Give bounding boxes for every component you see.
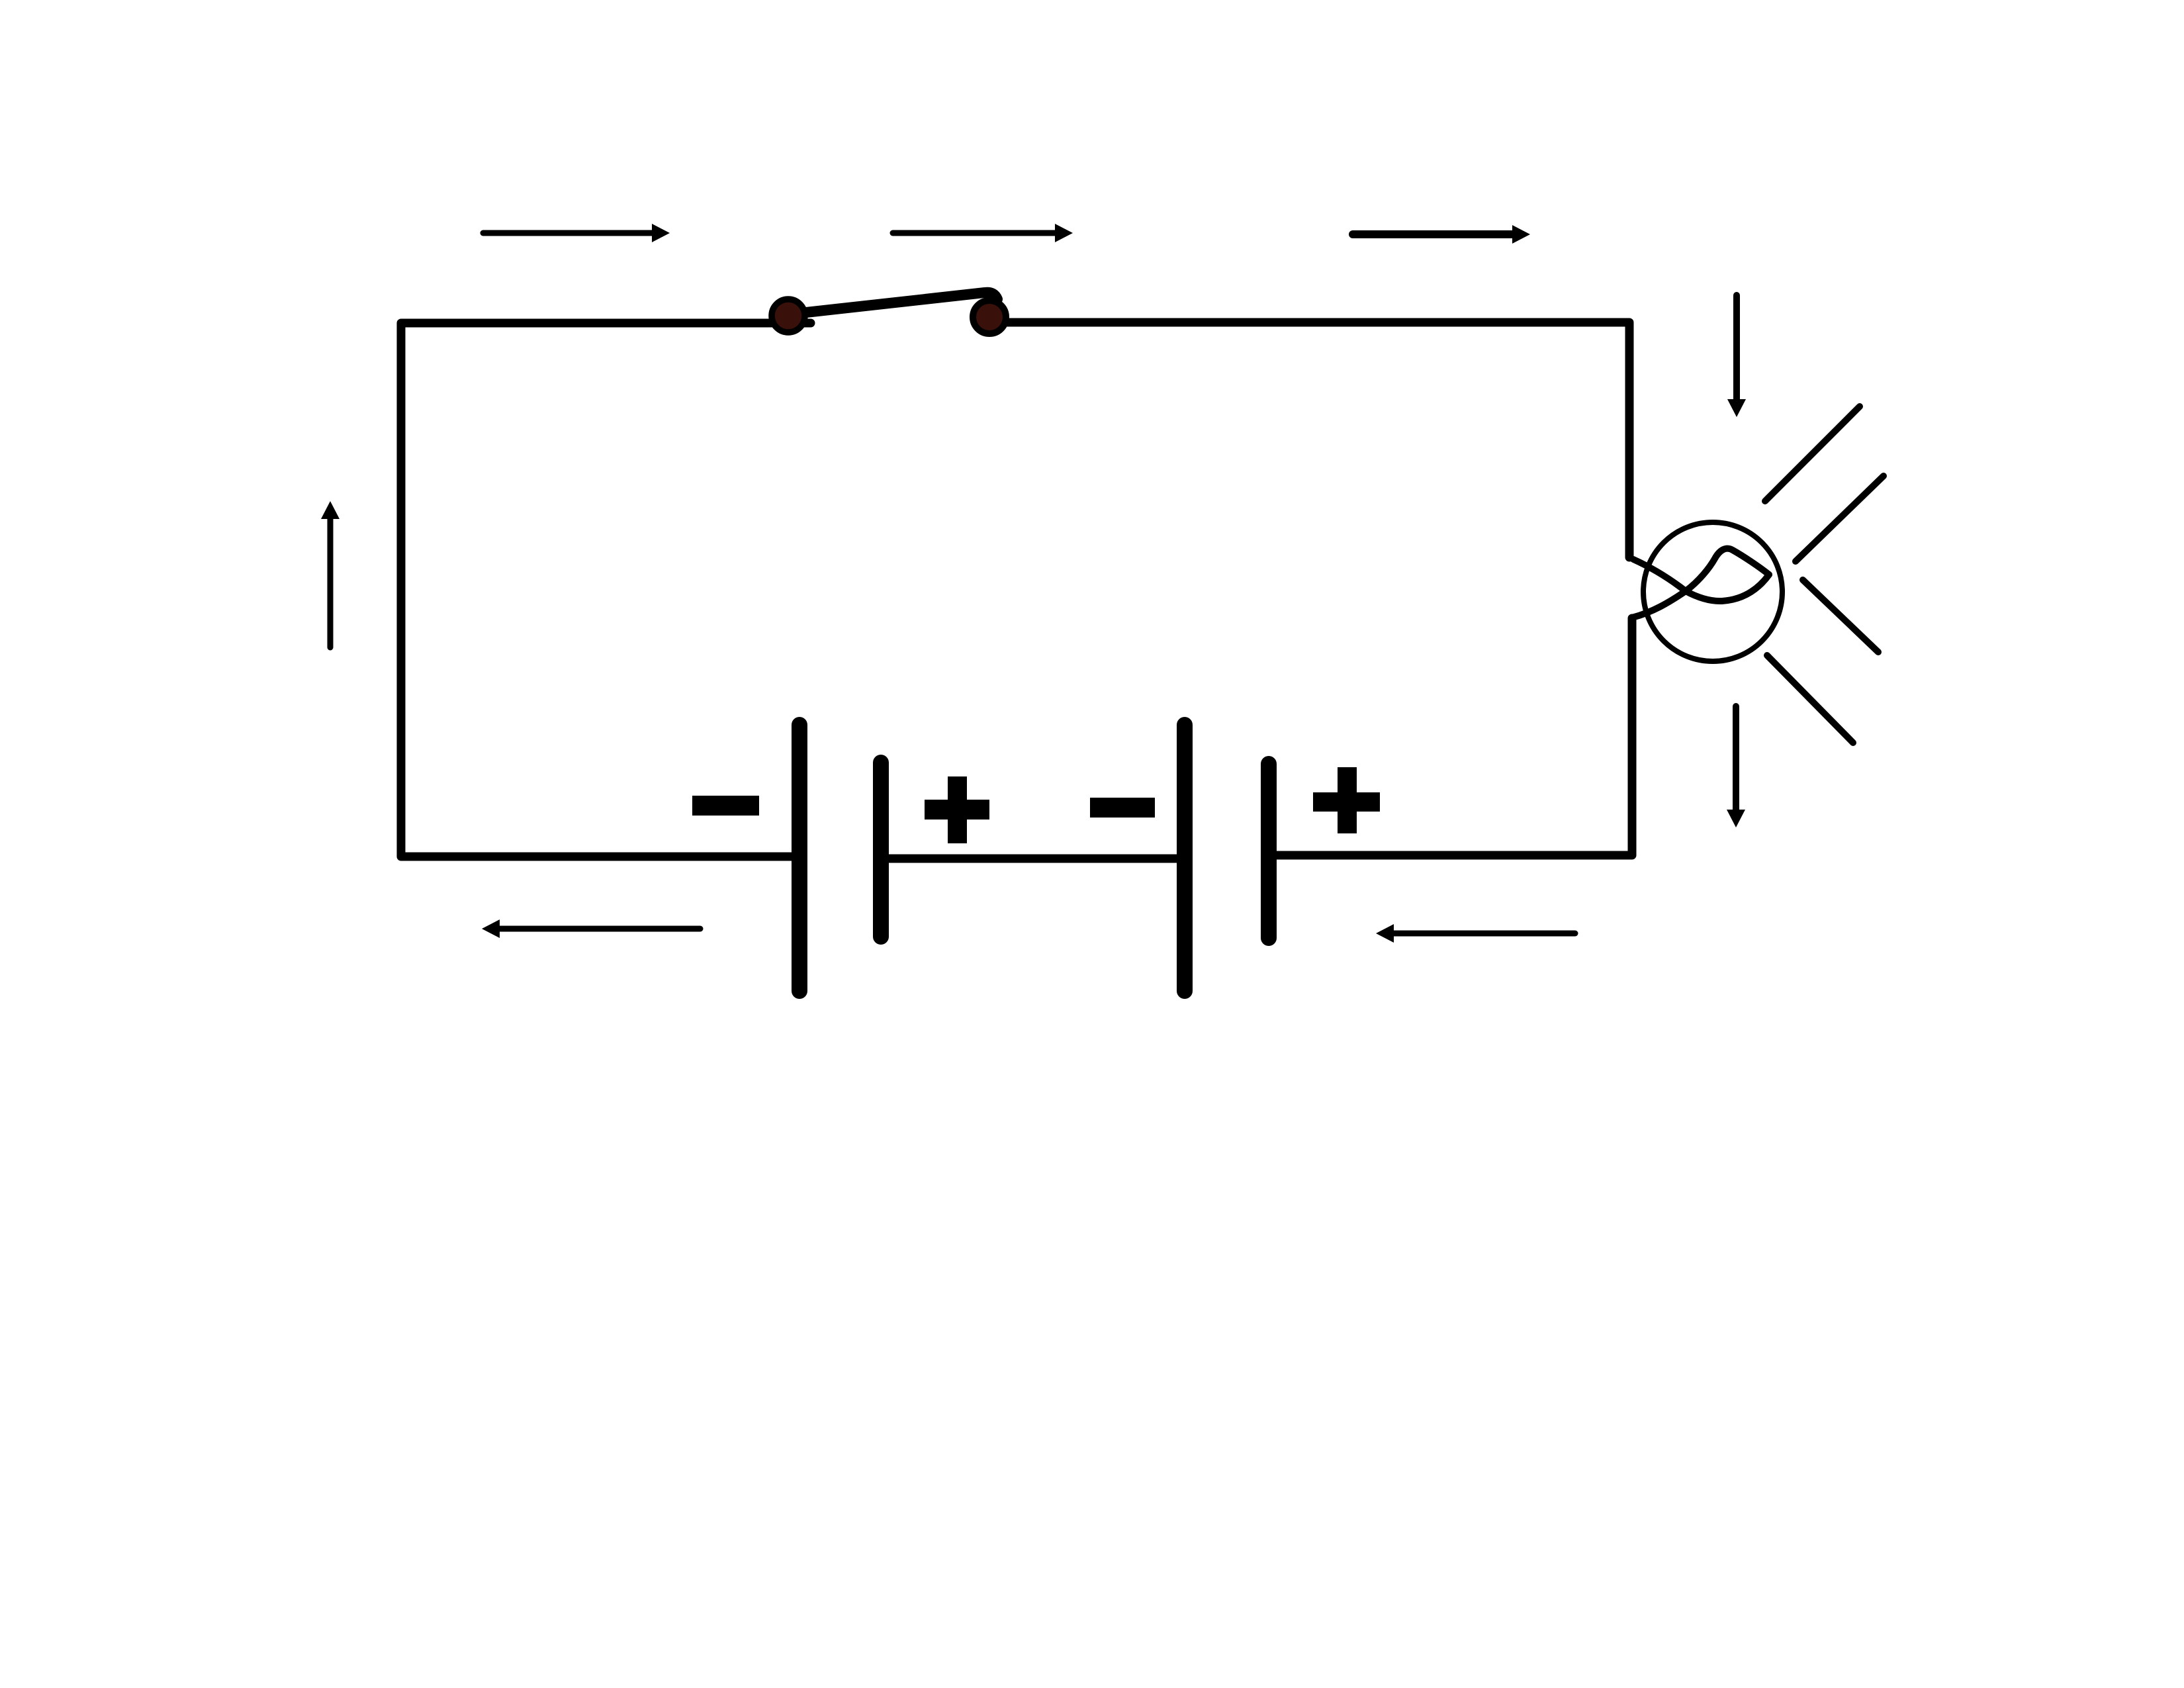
battery cell 2 short plate bbox=[1261, 764, 1277, 938]
current arrow left side up bbox=[321, 501, 340, 647]
battery cell 2 long plate (+) bbox=[1177, 725, 1193, 991]
lamp filament lower curve bbox=[1633, 559, 1769, 601]
wire: between battery cells bbox=[881, 855, 1185, 863]
lamp bulb circle bbox=[1643, 522, 1782, 661]
current arrow bottom-left bbox=[482, 919, 700, 938]
switch contact dot right bbox=[973, 301, 1006, 334]
battery cell 1 short plate bbox=[873, 763, 889, 937]
lamp filament upper loop curve bbox=[1632, 549, 1769, 618]
label plus sign cell 1 bbox=[925, 776, 989, 843]
label minus sign cell 1 bbox=[692, 796, 759, 816]
switch lever bbox=[788, 293, 997, 314]
wire: top-left + left side + bottom-left run bbox=[401, 323, 811, 857]
label plus sign cell 2 bbox=[1313, 767, 1380, 833]
current arrow top-middle bbox=[893, 224, 1073, 242]
light ray upper short bbox=[1796, 476, 1884, 561]
current arrow top-right bbox=[1353, 225, 1530, 244]
current arrow bottom-right bbox=[1376, 924, 1575, 943]
current arrow right side lower down bbox=[1727, 706, 1745, 827]
label minus sign cell 2 bbox=[1090, 798, 1155, 818]
battery cell 1 long plate (+) bbox=[792, 725, 807, 991]
light ray right lower bbox=[1803, 580, 1878, 652]
switch contact dot left bbox=[772, 299, 805, 332]
current arrow top-left bbox=[483, 224, 670, 242]
light ray bottom bbox=[1767, 655, 1853, 743]
wire: top-right run + right side upper segment bbox=[979, 322, 1629, 557]
wire: right side lower segment + bottom-right run bbox=[1269, 618, 1632, 855]
light ray upper long bbox=[1765, 406, 1860, 501]
current arrow right side upper down bbox=[1727, 295, 1746, 417]
